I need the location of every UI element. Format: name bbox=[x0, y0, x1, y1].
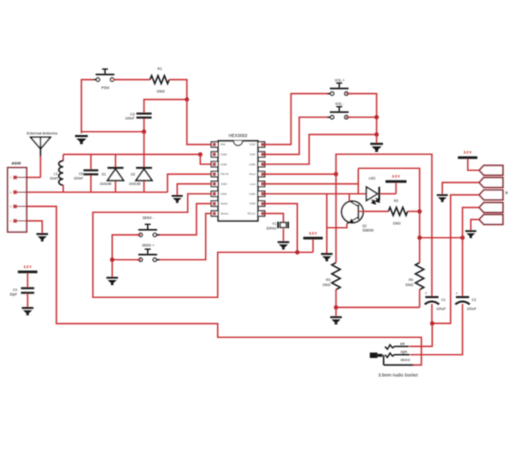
wire B pin2 to ground bbox=[442, 183, 479, 195]
svg-text:External Antenna: External Antenna bbox=[27, 130, 58, 135]
wire R2 right to R4 vertical bbox=[408, 210, 420, 212]
label Q1 bbox=[362, 224, 367, 228]
label C5 value 100nF bbox=[74, 176, 84, 180]
svg-text:1N4148: 1N4148 bbox=[129, 182, 141, 186]
connector B 5-pin bbox=[479, 165, 503, 224]
wire pin13 node down to R3 bbox=[335, 174, 337, 263]
ground below R3 bbox=[330, 316, 342, 324]
svg-text:Rout: Rout bbox=[249, 172, 255, 176]
wire junction down to IC pin 1 bbox=[187, 100, 211, 145]
label SEEK+ bbox=[142, 243, 154, 247]
junction C1 bottom bbox=[430, 321, 434, 325]
audio socket right contact bbox=[385, 353, 410, 357]
label VOL- bbox=[335, 102, 345, 106]
wire D2 bottom lead bbox=[143, 181, 145, 193]
wire ASW pin1 to antenna bbox=[27, 176, 41, 178]
svg-text:Lout: Lout bbox=[250, 182, 256, 186]
wire 3.3V to B pin1 bbox=[468, 159, 479, 170]
antenna ANT1 External Antenna bbox=[31, 137, 51, 156]
ground at B pin2 bbox=[437, 194, 448, 202]
label R3 bbox=[326, 278, 330, 282]
wire IC pin 7 to SEEK- bbox=[155, 204, 211, 235]
wire IC pin 9 to crystal Y1 bbox=[265, 214, 284, 223]
label C4 value 33pF bbox=[9, 293, 17, 297]
svg-text:FM IN: FM IN bbox=[221, 172, 229, 176]
wire IC pin 5 to ground bbox=[177, 184, 211, 195]
pushbutton PSW bbox=[93, 68, 117, 81]
svg-text:100nF: 100nF bbox=[125, 117, 135, 121]
svg-text:S58050: S58050 bbox=[362, 228, 374, 232]
ground below Q1 emitter bbox=[321, 253, 333, 261]
label SEEK- bbox=[142, 216, 154, 220]
inductor L1 bbox=[59, 161, 63, 185]
ground at IC pin 5 bbox=[172, 195, 183, 203]
wire PSW left contact to ground rail bbox=[81, 80, 93, 134]
audio socket J1 plug bbox=[370, 353, 413, 365]
wire base to R2 bbox=[358, 210, 388, 212]
svg-text:1N4148: 1N4148 bbox=[100, 182, 112, 186]
svg-text:HEX3653: HEX3653 bbox=[229, 133, 248, 138]
svg-text:VDD: VDD bbox=[249, 202, 255, 206]
junction at R4 vertical 237 bbox=[417, 236, 421, 240]
ground below C4 bbox=[22, 307, 34, 315]
wire IC pin 16 to VOL+ bbox=[265, 94, 332, 145]
wire C1 bottom lead bbox=[431, 304, 433, 324]
led LED1 bbox=[366, 187, 379, 204]
capacitor C3 bbox=[136, 113, 151, 119]
label Y1 bbox=[272, 222, 276, 226]
svg-text:10kΩ: 10kΩ bbox=[405, 283, 413, 287]
svg-text:D1: D1 bbox=[102, 173, 106, 177]
junction C3/D2/ground rail bbox=[142, 130, 146, 134]
wire D1 leads bbox=[115, 154, 117, 192]
junction VDD rail / pin10 bbox=[295, 250, 299, 254]
wire pin13 node up and to C1 top bbox=[336, 154, 432, 296]
wire branch down to IC pin 3 bbox=[200, 154, 211, 164]
wire LED node vertical bbox=[357, 168, 359, 194]
pushbutton VOL- bbox=[327, 106, 351, 119]
label ASW bbox=[12, 161, 22, 166]
wire IC pin 13 to junction bbox=[265, 173, 336, 175]
svg-text:R3: R3 bbox=[326, 278, 330, 282]
wire R3 bottom rail to R4 bottom bbox=[336, 290, 420, 308]
svg-text:left: left bbox=[400, 342, 404, 346]
label L1 value 10uH bbox=[49, 176, 58, 180]
svg-text:100uF: 100uF bbox=[436, 307, 446, 311]
svg-text:GND: GND bbox=[221, 153, 227, 157]
svg-text:RCLK: RCLK bbox=[248, 212, 256, 216]
junction R2/R4 vertical bbox=[417, 209, 421, 213]
wire C1 bottom to left contact bbox=[409, 323, 432, 346]
wire D2 top lead bbox=[143, 132, 145, 168]
label R2 bbox=[394, 199, 398, 203]
junction R3 bottom bbox=[334, 305, 338, 309]
label R1 bbox=[158, 67, 163, 71]
label D2 value 1N4148 bbox=[129, 182, 141, 186]
svg-text:SEEK +: SEEK + bbox=[142, 243, 154, 247]
wire R1 right to junction bbox=[169, 80, 187, 100]
label Y1 value 32KHz bbox=[266, 226, 276, 230]
junction R1/C3/pin1 node bbox=[185, 97, 189, 101]
label C3 bbox=[130, 112, 134, 116]
svg-text:10kΩ: 10kΩ bbox=[393, 221, 401, 225]
label C5 bbox=[79, 172, 83, 176]
wire ground rail to C3/D2 node bbox=[81, 131, 144, 133]
diode D1 bbox=[108, 167, 124, 181]
transistor Q1 S58050 bbox=[342, 201, 364, 224]
crystal Y1 bbox=[277, 222, 289, 229]
power 3.3V supply at connector B bbox=[458, 150, 478, 159]
wire B pin5 to ground bbox=[471, 220, 479, 231]
svg-text:Seek+: Seek+ bbox=[221, 212, 230, 216]
label D2 bbox=[131, 173, 135, 177]
label D1 value 1N4148 bbox=[100, 182, 112, 186]
svg-text:VOL +: VOL + bbox=[335, 78, 345, 82]
wire crystal to ground bbox=[282, 229, 284, 242]
svg-text:C5: C5 bbox=[79, 172, 83, 176]
label sleeve bbox=[401, 358, 411, 362]
svg-text:VOP: VOP bbox=[249, 143, 255, 147]
label R4 value 10k bbox=[405, 283, 413, 287]
wire SEEK left contacts to ground bbox=[112, 235, 140, 277]
svg-text:D2: D2 bbox=[131, 173, 135, 177]
ground below SEEK buttons bbox=[106, 277, 118, 285]
svg-text:3.3 V: 3.3 V bbox=[309, 231, 318, 235]
svg-text:32KHz: 32KHz bbox=[266, 226, 276, 230]
wire IC pin 15 to VOL- bbox=[265, 117, 332, 154]
label PSW bbox=[101, 86, 110, 90]
label R1 value 10k bbox=[156, 90, 165, 94]
wire ASW pin4 to ground bbox=[27, 221, 42, 233]
capacitor C1 100uF bbox=[425, 291, 439, 304]
wire VDD net pin6 to 3.3V rail bbox=[93, 194, 313, 297]
svg-text:C4: C4 bbox=[13, 288, 17, 292]
svg-text:L1: L1 bbox=[54, 172, 58, 176]
wire IC pin 12 to LED node bbox=[265, 183, 359, 185]
label C1 bbox=[441, 298, 445, 302]
wire 3.3V to C4 bbox=[27, 273, 29, 287]
label D1 bbox=[102, 173, 106, 177]
svg-text:ASW: ASW bbox=[12, 161, 22, 166]
wire ASW pin3 to audio socket sleeve bbox=[27, 206, 422, 365]
wire C2 bottom to right contact bbox=[410, 304, 462, 355]
svg-text:100nF: 100nF bbox=[74, 176, 84, 180]
wire R4 bottom lead bbox=[419, 290, 421, 308]
svg-text:100uF: 100uF bbox=[467, 307, 477, 311]
label R4 bbox=[409, 278, 413, 282]
wire C3 bottom lead bbox=[143, 118, 145, 131]
label External Antenna bbox=[27, 130, 58, 135]
svg-text:10kΩ: 10kΩ bbox=[156, 90, 165, 94]
diode D2 bbox=[136, 167, 152, 181]
wire L1 leads bbox=[62, 154, 64, 192]
wire IC pin 8 to SEEK+ bbox=[155, 214, 211, 260]
audio socket left contact bbox=[385, 345, 409, 349]
resistor R4 bbox=[415, 263, 423, 290]
svg-text:3.3 V: 3.3 V bbox=[464, 150, 473, 154]
power 3.3V supply at VDD rail bbox=[303, 231, 323, 239]
pushbutton SEEK- bbox=[136, 224, 160, 237]
wire antenna stem bbox=[40, 156, 42, 177]
svg-text:C2: C2 bbox=[472, 298, 476, 302]
wire FM IN from bottom rail to IC pin 4 bbox=[168, 174, 212, 192]
wire VOL right contacts to ground bbox=[346, 94, 376, 143]
svg-text:VDD: VDD bbox=[221, 192, 227, 196]
op-amp U1 HEX3653 body bbox=[211, 141, 265, 221]
svg-text:R2: R2 bbox=[394, 199, 398, 203]
connector ASW 4-pin bbox=[8, 168, 27, 232]
wire B pin4 to C2 top bbox=[463, 208, 480, 297]
capacitor C4 bbox=[21, 287, 34, 294]
svg-text:R4: R4 bbox=[409, 278, 413, 282]
label C4 bbox=[13, 288, 17, 292]
svg-text:Seek-: Seek- bbox=[221, 202, 229, 206]
junction at C2 vertical 237 bbox=[460, 236, 464, 240]
pushbutton VOL+ bbox=[327, 82, 351, 95]
junction VOL- right bbox=[374, 115, 378, 119]
wire IC pin 14 to VOL ground bbox=[265, 135, 377, 165]
svg-text:3.5mm Audio Socket: 3.5mm Audio Socket bbox=[378, 372, 418, 377]
svg-text:10kΩ: 10kΩ bbox=[322, 283, 330, 287]
svg-text:SEEK -: SEEK - bbox=[142, 216, 154, 220]
wire 3.3V stub to VDD rail bbox=[312, 239, 314, 252]
label U1 HEX3653 bbox=[229, 133, 248, 138]
power 3.3V supply at LED bbox=[386, 174, 407, 182]
junction SEEK+ left bbox=[110, 258, 114, 262]
wire R3 ground stub bbox=[335, 307, 337, 316]
ground below crystal bbox=[278, 241, 290, 249]
pushbutton SEEK+ bbox=[136, 249, 160, 262]
capacitor C2 100uF bbox=[455, 291, 469, 304]
label B bbox=[505, 191, 508, 195]
svg-text:GND: GND bbox=[249, 192, 255, 196]
ground at B pin5 bbox=[465, 230, 476, 238]
svg-text:R1: R1 bbox=[158, 67, 163, 71]
junction pin13 node bbox=[334, 172, 338, 176]
svg-text:GND: GND bbox=[221, 182, 227, 186]
wire junction to C3 top bbox=[144, 100, 187, 113]
svg-text:VOF: VOF bbox=[249, 153, 255, 157]
label C2 bbox=[472, 298, 476, 302]
label L1 bbox=[54, 172, 58, 176]
svg-text:PSW: PSW bbox=[101, 86, 110, 90]
svg-text:GND: GND bbox=[221, 162, 227, 166]
power 3.3V supply at C4 bbox=[18, 265, 37, 273]
wire collector node to C2 top branch bbox=[420, 237, 463, 239]
label Q1 value S58050 bbox=[362, 228, 374, 232]
label C3 value 100nF bbox=[125, 117, 135, 121]
ground below PSW net bbox=[75, 135, 88, 144]
svg-text:PW: PW bbox=[221, 143, 226, 147]
wire tank bottom rail from ASW pin 2 bbox=[27, 191, 168, 193]
junction pin14 / VOL ground bbox=[374, 132, 378, 136]
svg-text:10uH: 10uH bbox=[49, 176, 58, 180]
wire collector stub bbox=[348, 194, 350, 201]
wire LED cathode to 3.3V bbox=[380, 183, 396, 194]
label left bbox=[400, 342, 404, 346]
labels U1 pin names bbox=[221, 143, 256, 216]
wire C5 leads bbox=[90, 154, 92, 192]
wire tank top rail to IC pin 2 bbox=[63, 153, 200, 155]
svg-text:C1: C1 bbox=[441, 298, 445, 302]
svg-text:3.3 V: 3.3 V bbox=[392, 174, 401, 178]
svg-text:33pF: 33pF bbox=[9, 293, 17, 297]
svg-text:VOL -: VOL - bbox=[335, 102, 345, 106]
svg-text:3.3 V: 3.3 V bbox=[24, 265, 33, 269]
label C1 value 100uF bbox=[436, 307, 446, 311]
resistor R1 bbox=[150, 76, 169, 84]
label right bbox=[401, 350, 407, 354]
wire emitter to ground bbox=[327, 224, 347, 228]
wire PSW right to R1 bbox=[113, 79, 150, 81]
resistor R2 bbox=[388, 207, 407, 215]
wire collector top rail to R4 bbox=[358, 168, 419, 262]
label R2 value 10k bbox=[393, 221, 401, 225]
wire IC pin 11 along LED anode row bbox=[265, 193, 366, 195]
svg-text:sleeve: sleeve bbox=[401, 358, 411, 362]
label R3 value 10k bbox=[322, 283, 330, 287]
svg-text:LED: LED bbox=[369, 176, 376, 180]
svg-text:GND: GND bbox=[249, 162, 255, 166]
capacitor C5 bbox=[84, 169, 99, 175]
svg-text:+: + bbox=[425, 291, 427, 295]
junction tank rail / pin3 branch bbox=[198, 152, 202, 156]
resistor R3 bbox=[332, 263, 340, 290]
ground at ASW pin4 bbox=[36, 233, 48, 241]
label C2 value 100uF bbox=[467, 307, 477, 311]
wire B pin3 to C1 bottom bbox=[433, 195, 480, 324]
label VOL+ bbox=[335, 78, 345, 82]
svg-text:+: + bbox=[455, 291, 457, 295]
label LED bbox=[369, 176, 376, 180]
ground below VOL buttons bbox=[370, 143, 383, 152]
label 3.5mm Audio Socket bbox=[378, 372, 418, 377]
wire C4 to ground bbox=[27, 294, 29, 308]
wire pin11 branch to ground bbox=[326, 194, 328, 253]
svg-text:right: right bbox=[401, 350, 407, 354]
wire IC pin 10 to VDD rail bbox=[265, 204, 298, 253]
